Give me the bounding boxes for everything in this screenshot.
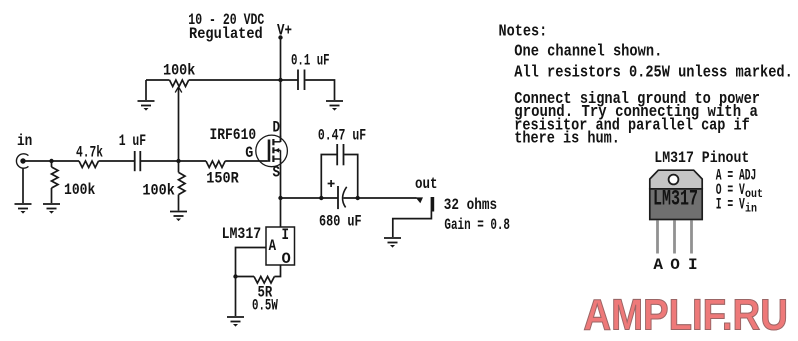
wire top rail left end down — [145, 80, 147, 100]
ground under LM317 — [227, 317, 244, 327]
svg-text:in: in — [17, 132, 32, 150]
ground under input jack — [15, 204, 32, 214]
wire node F to ground — [235, 277, 237, 317]
transistor Q1 IRF610 MOSFET — [256, 135, 288, 167]
wire 100k to ground — [51, 188, 53, 203]
svg-text:G: G — [245, 144, 253, 162]
wire ADJ pin to node F — [236, 248, 267, 277]
node B junction — [176, 159, 180, 163]
wire C1 to node B — [141, 160, 206, 162]
svg-text:LM317: LM317 — [222, 225, 262, 243]
node D junction — [319, 196, 323, 200]
resistor 5R — [254, 277, 274, 284]
svg-text:out: out — [415, 175, 438, 193]
svg-text:1 uF: 1 uF — [119, 132, 146, 150]
svg-text:out: out — [745, 187, 763, 201]
wire 5R to OUT pin — [274, 265, 280, 277]
svg-text:0.1 uF: 0.1 uF — [291, 51, 330, 69]
node V+ rail junction — [278, 78, 282, 82]
node F junction — [233, 274, 237, 278]
svg-text:0.5W: 0.5W — [252, 296, 278, 314]
notes text block — [499, 22, 793, 147]
wire pot to V+ node — [189, 79, 298, 81]
LM317 package tab — [650, 170, 702, 189]
wire 100k bias to ground — [178, 195, 180, 211]
svg-text:LM317: LM317 — [653, 186, 698, 212]
svg-text:Regulated: Regulated — [189, 25, 263, 43]
wire 680uF to node E — [344, 197, 417, 199]
svg-text:Notes:: Notes: — [499, 22, 548, 40]
node A junction — [49, 159, 53, 163]
svg-text:AMPLIF.RU: AMPLIF.RU — [583, 291, 788, 340]
LM317 package body — [650, 189, 702, 220]
wiper arrowhead — [175, 87, 182, 93]
capacitor C4 680uF plus plate — [337, 186, 339, 209]
svg-text:there is hum.: there is hum. — [514, 130, 620, 148]
wire bypass loop right — [344, 155, 358, 199]
svg-text:S: S — [273, 164, 281, 182]
wire node A down — [51, 161, 53, 167]
resistor 100k input shunt — [52, 167, 59, 188]
ground under 100k input shunt — [43, 204, 60, 214]
svg-text:D: D — [273, 119, 281, 137]
svg-text:O: O — [670, 256, 680, 274]
capacitor C4 680uF curved plate — [343, 187, 347, 208]
svg-text:32 ohms: 32 ohms — [444, 196, 497, 214]
LM317 package hole — [669, 175, 679, 185]
svg-text:A: A — [269, 237, 277, 255]
ground under 100k bias — [170, 212, 187, 222]
LM317 legs — [658, 221, 692, 254]
wire input jack sleeve down — [22, 168, 24, 203]
connector J1 input jack — [16, 154, 28, 168]
wire 150R to gate — [225, 160, 268, 162]
capacitor C1 1uF — [135, 151, 141, 171]
resistor 4.7k — [79, 161, 99, 168]
wire load to ground — [393, 211, 432, 237]
svg-text:O: O — [282, 250, 292, 268]
wire input jack to node A — [25, 160, 79, 162]
svg-text:150R: 150R — [206, 169, 239, 187]
resistor 100k bias shunt — [179, 172, 186, 194]
svg-text:0.47 uF: 0.47 uF — [318, 127, 366, 145]
svg-text:I = V: I = V — [716, 196, 745, 214]
wire bypass loop left — [321, 155, 336, 199]
capacitor C3 0.47uF — [337, 144, 343, 165]
wire source down to node C — [280, 159, 282, 227]
wire node F to 5R — [236, 276, 255, 278]
svg-text:100k: 100k — [163, 62, 196, 80]
wire 4.7k to C1 — [99, 160, 135, 162]
load 32 ohms bar — [431, 197, 435, 212]
terminal V+ — [278, 35, 282, 39]
label plus sign — [328, 180, 335, 187]
svg-text:IRF610: IRF610 — [210, 126, 257, 144]
svg-text:Gain = 0.8: Gain = 0.8 — [444, 216, 510, 234]
svg-text:4.7k: 4.7k — [76, 144, 103, 162]
pin legend I = Vin — [716, 196, 757, 216]
svg-text:100k: 100k — [64, 181, 96, 199]
ground under pot left end — [138, 101, 155, 111]
svg-text:A: A — [653, 256, 663, 274]
ground under 0.1uF — [326, 101, 343, 111]
wire wiper of pot down to node B — [178, 88, 180, 161]
wire node B down to 100k bias — [178, 161, 180, 172]
svg-text:I: I — [282, 226, 290, 244]
node E junction — [356, 196, 360, 200]
svg-text:100k: 100k — [142, 182, 175, 200]
svg-text:All resistors 0.25W unless mar: All resistors 0.25W unless marked. — [514, 63, 793, 81]
wire V+ terminal down to drain — [280, 38, 282, 143]
terminal out arrowhead — [416, 197, 424, 203]
wire node C to 680uF — [281, 197, 339, 199]
wire 0.1uF to ground drop — [305, 80, 334, 100]
potentiometer 100k — [170, 80, 189, 87]
wire top rail to pot — [146, 79, 170, 81]
resistor 150R — [206, 161, 225, 168]
svg-text:V+: V+ — [277, 21, 292, 39]
node C junction — [278, 196, 282, 200]
svg-text:I: I — [688, 256, 698, 274]
svg-text:in: in — [745, 202, 757, 216]
capacitor C2 0.1uF — [298, 70, 305, 91]
regulator U1 LM317 body — [266, 227, 295, 265]
svg-text:680 uF: 680 uF — [319, 213, 362, 231]
svg-text:One channel shown.: One channel shown. — [514, 42, 662, 60]
ground under load — [384, 238, 401, 248]
svg-text:LM317 Pinout: LM317 Pinout — [654, 149, 749, 167]
pin legend O = Vout — [716, 181, 763, 201]
